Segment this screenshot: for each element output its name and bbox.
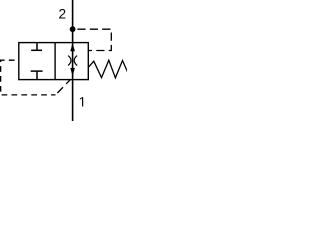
- valve position divider: [54, 43, 56, 80]
- pilot line right (dashed): [75, 29, 111, 50]
- node junction dot: [70, 26, 76, 32]
- wire main line port 2 to port 1: [72, 0, 74, 121]
- port label 1: [80, 97, 83, 106]
- orifice restriction right arc: [74, 56, 77, 66]
- port label 2: [59, 9, 65, 18]
- arrowhead up: [70, 43, 75, 51]
- plugged port top (left position): [31, 43, 42, 51]
- spring: [88, 60, 128, 78]
- orifice restriction left arc: [68, 56, 71, 66]
- arrowhead down: [70, 68, 75, 77]
- plugged port bottom (left position): [31, 71, 43, 80]
- pilot line diagonal to port 1 (dashed): [57, 77, 72, 93]
- pilot line left (dashed): [1, 60, 56, 95]
- valve body envelope: [19, 43, 89, 80]
